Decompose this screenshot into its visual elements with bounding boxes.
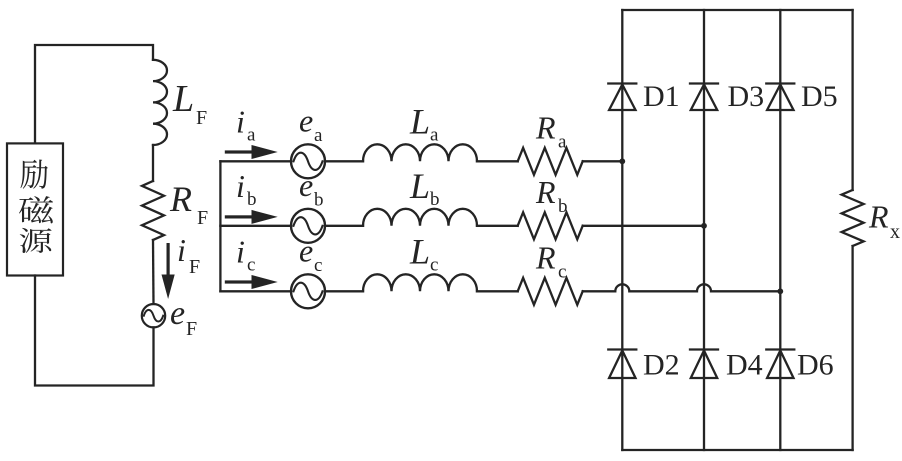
resistor Rc xyxy=(518,278,583,305)
svg-text:c: c xyxy=(430,254,438,275)
svg-text:R: R xyxy=(535,174,556,210)
load leg wire top xyxy=(851,10,853,190)
svg-text:b: b xyxy=(558,196,568,217)
svg-text:e: e xyxy=(170,295,185,332)
current arrow ia xyxy=(225,145,278,159)
node phase a junction xyxy=(619,158,625,164)
diode D2 xyxy=(608,350,636,379)
svg-text:a: a xyxy=(247,124,256,145)
diode D1 xyxy=(608,84,636,111)
bridge leg wire 3 xyxy=(779,10,781,450)
bridge leg wire 2 xyxy=(703,10,705,450)
inductor Lb xyxy=(363,209,477,226)
ac source ea xyxy=(291,144,325,178)
wire xyxy=(477,290,518,292)
svg-text:e: e xyxy=(299,102,313,138)
wire xyxy=(325,290,363,292)
svg-text:a: a xyxy=(314,125,323,146)
inductor Lc xyxy=(363,274,477,291)
svg-text:b: b xyxy=(314,190,324,211)
wire phase a left xyxy=(220,160,291,162)
svg-text:i: i xyxy=(236,103,245,139)
svg-text:c: c xyxy=(314,255,322,276)
diode D5 xyxy=(766,84,794,111)
neutral bus wire xyxy=(219,161,221,291)
resistor Rx xyxy=(842,190,864,246)
svg-text:D2: D2 xyxy=(643,349,680,382)
wire field loop bottom xyxy=(35,276,154,386)
bridge top rail wire xyxy=(622,9,852,11)
svg-text:L: L xyxy=(172,78,194,120)
svg-text:R: R xyxy=(868,199,889,235)
current arrow ib xyxy=(225,210,278,224)
wire phase c left xyxy=(220,290,291,292)
svg-text:D6: D6 xyxy=(797,349,834,382)
svg-text:L: L xyxy=(409,231,430,271)
svg-text:D3: D3 xyxy=(728,80,765,113)
svg-text:i: i xyxy=(236,233,245,269)
bridge leg wire 1 xyxy=(621,10,623,450)
svg-text:F: F xyxy=(197,207,208,229)
svg-text:e: e xyxy=(299,167,313,203)
excitation source box 励磁源 xyxy=(7,143,63,275)
wire xyxy=(477,160,518,162)
svg-text:R: R xyxy=(535,109,556,145)
wire phase b to bridge xyxy=(583,225,704,227)
inductor LF xyxy=(153,60,167,145)
resistor RF xyxy=(142,181,164,240)
wire xyxy=(325,225,363,227)
svg-text:c: c xyxy=(558,261,566,282)
svg-text:L: L xyxy=(409,166,430,206)
svg-text:b: b xyxy=(247,189,257,210)
resistor Ra xyxy=(518,148,583,175)
svg-text:i: i xyxy=(236,168,245,204)
node phase b junction xyxy=(701,223,707,229)
diode D3 xyxy=(690,84,718,111)
svg-text:F: F xyxy=(189,256,200,278)
svg-text:a: a xyxy=(430,124,439,145)
ac source eF xyxy=(142,304,165,327)
svg-text:F: F xyxy=(186,318,197,340)
wire xyxy=(325,160,363,162)
resistor Rb xyxy=(518,212,583,239)
svg-text:D1: D1 xyxy=(643,80,680,113)
svg-text:x: x xyxy=(890,221,900,243)
svg-text:R: R xyxy=(535,239,556,275)
wire xyxy=(152,240,155,304)
svg-text:b: b xyxy=(430,189,440,210)
wire field loop top-left xyxy=(35,45,153,143)
svg-text:c: c xyxy=(247,254,255,275)
inductor La xyxy=(363,144,477,161)
node phase c junction xyxy=(777,288,783,294)
current arrow ic xyxy=(225,275,278,289)
diode D6 xyxy=(766,350,794,379)
svg-text:D5: D5 xyxy=(801,80,838,113)
ac source eb xyxy=(291,209,325,243)
wire xyxy=(152,145,154,181)
svg-text:F: F xyxy=(196,107,207,129)
svg-text:e: e xyxy=(299,232,313,268)
ac source ec xyxy=(291,274,325,308)
diode D4 xyxy=(690,350,718,379)
svg-text:i: i xyxy=(177,232,186,268)
wire phase c to bridge with hops xyxy=(583,284,781,291)
svg-text:D4: D4 xyxy=(726,349,763,382)
svg-text:L: L xyxy=(409,101,430,141)
load leg wire bottom xyxy=(851,246,853,450)
svg-text:R: R xyxy=(169,179,192,219)
wire phase a to bridge xyxy=(583,160,623,162)
current arrow iF xyxy=(162,243,175,299)
wire phase b left xyxy=(220,225,291,227)
wire xyxy=(477,225,518,227)
svg-text:a: a xyxy=(558,131,567,152)
bridge bottom rail wire xyxy=(622,449,852,451)
